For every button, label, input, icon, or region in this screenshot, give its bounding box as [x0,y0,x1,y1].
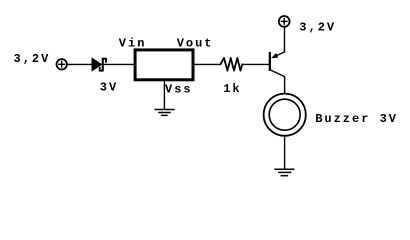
svg-text:3,2V: 3,2V [299,21,336,35]
svg-text:3V: 3V [100,80,118,94]
svg-text:Buzzer 3V: Buzzer 3V [315,112,398,126]
svg-text:3,2V: 3,2V [14,52,51,66]
svg-text:Vss: Vss [165,82,193,96]
svg-text:1k: 1k [223,82,241,96]
